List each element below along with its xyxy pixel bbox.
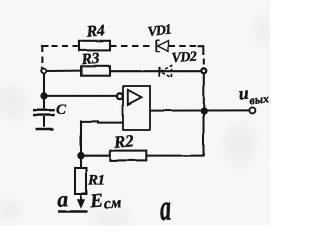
wire dashed VD1 to corner bbox=[169, 45, 197, 47]
node feedback junction bbox=[78, 153, 83, 158]
wire op-amp output to terminal bbox=[150, 109, 249, 111]
node C junction bbox=[41, 93, 46, 98]
capacitor C bbox=[33, 98, 55, 127]
terminal u_out bbox=[249, 107, 255, 113]
svg-text:а: а bbox=[56, 186, 69, 212]
wire R3 to node bbox=[110, 70, 202, 72]
ground bbox=[36, 128, 54, 131]
resistor R2 bbox=[110, 151, 146, 161]
svg-text:а: а bbox=[159, 187, 172, 226]
op-amp U1 bbox=[117, 86, 150, 130]
paper background bbox=[0, 0, 270, 226]
node input A bbox=[42, 69, 47, 74]
wire input node A down to node C bbox=[43, 73, 45, 93]
svg-text:R2: R2 bbox=[112, 131, 135, 152]
diode VD1 bbox=[156, 40, 168, 51]
node output junction bbox=[201, 108, 206, 113]
wire dashed left branch corner bbox=[42, 46, 48, 52]
wire node to R2 bbox=[81, 155, 110, 157]
svg-text:VD1: VD1 bbox=[147, 23, 172, 41]
wire dashed R4 to VD1 bbox=[110, 45, 153, 47]
resistor R4 bbox=[79, 41, 110, 51]
svg-text:R4: R4 bbox=[85, 22, 106, 41]
wire node A to R3 bbox=[46, 70, 81, 72]
resistor R1 bbox=[75, 158, 87, 207]
svg-text:R3: R3 bbox=[80, 50, 101, 69]
svg-text:C: C bbox=[56, 102, 67, 118]
wire node C to op-amp inverting input bbox=[44, 95, 117, 97]
wire R2 to output corner bbox=[146, 113, 203, 156]
wire node down to output node bbox=[203, 73, 205, 109]
terminal bar node a bbox=[58, 210, 88, 213]
node junction VD branch bbox=[201, 68, 206, 73]
svg-text:VD2: VD2 bbox=[171, 50, 197, 67]
resistor R3 bbox=[81, 66, 110, 75]
svg-text:R1: R1 bbox=[87, 173, 105, 189]
diode VD2 bbox=[160, 66, 172, 78]
wire op-amp non-inverting input bbox=[81, 121, 123, 153]
